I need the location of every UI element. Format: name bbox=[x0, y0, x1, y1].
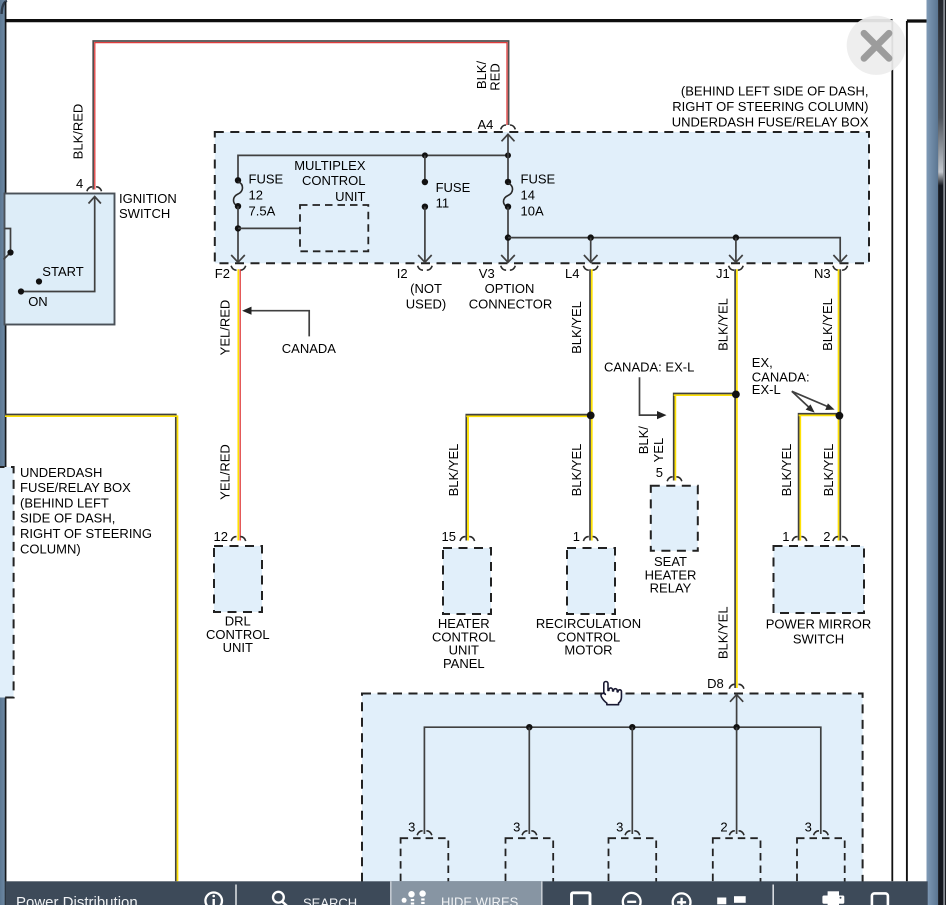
toolbar hide-wires section bbox=[391, 881, 542, 905]
wire A4 down arrow into box bbox=[502, 134, 515, 141]
svg-text:COLUMN): COLUMN) bbox=[20, 541, 81, 556]
svg-text:I2: I2 bbox=[397, 266, 408, 281]
heater control unit panel box (dashed) bbox=[443, 548, 491, 614]
ignition switch feed wire bracket bbox=[5, 229, 11, 253]
svg-text:BLK/YEL: BLK/YEL bbox=[569, 444, 584, 497]
connector V3 symbol bbox=[501, 266, 516, 270]
multiplex control unit box (dashed) bbox=[300, 205, 368, 251]
svg-text:4: 4 bbox=[76, 176, 83, 191]
wire BLK/YEL branch to seat heater relay bbox=[674, 394, 735, 481]
connector pin 1 symbol (recirculation) bbox=[583, 537, 598, 541]
svg-text:YEL: YEL bbox=[651, 438, 666, 463]
ignition switch internal wire with up arrow to pin 4 bbox=[21, 197, 95, 292]
wire D8 up arrow inside bottom box bbox=[730, 695, 743, 702]
wire internal bus to N3 column bbox=[508, 238, 840, 262]
component box col 4 (dashed) bbox=[713, 838, 761, 905]
toolbar zoom-in icon bbox=[673, 893, 691, 905]
CANADA EX-L pointer arrow bbox=[640, 377, 658, 415]
connector F2 symbol bbox=[231, 266, 246, 270]
underdash fuse/relay box (top, dashed) bbox=[215, 132, 869, 263]
svg-text:SEARCH: SEARCH bbox=[303, 896, 357, 905]
connector pin 2 symbol (power mirror) bbox=[833, 537, 848, 541]
component box col 5 (dashed) bbox=[797, 838, 845, 905]
connector N3 symbol bbox=[833, 266, 848, 270]
junction node fuse 12 tap bbox=[235, 225, 241, 231]
wire YEL/RED F2 to DRL control unit bbox=[237, 269, 239, 540]
left underdash fuse/relay box (dashed, clipped) bbox=[0, 467, 14, 698]
svg-text:UNDERDASH FUSE/RELAY BOX: UNDERDASH FUSE/RELAY BOX bbox=[672, 115, 869, 130]
svg-text:YEL/RED: YEL/RED bbox=[218, 300, 233, 356]
toolbar fit icon bbox=[572, 893, 591, 905]
svg-text:(BEHIND LEFT: (BEHIND LEFT bbox=[20, 495, 109, 510]
connector pin 5 symbol bbox=[667, 477, 682, 481]
svg-text:J1: J1 bbox=[716, 266, 730, 281]
wire BLK/YEL branch to heater control panel bbox=[466, 415, 590, 541]
connector D8 symbol bbox=[729, 684, 744, 688]
recirculation control motor box (dashed) bbox=[567, 548, 615, 614]
svg-text:SWITCH: SWITCH bbox=[793, 632, 844, 647]
svg-text:BLK/YEL: BLK/YEL bbox=[716, 606, 731, 659]
svg-text:CANADA: CANADA bbox=[282, 341, 337, 356]
svg-text:Power Distribution: Power Distribution bbox=[16, 894, 138, 905]
toolbar mobile icon bbox=[872, 893, 888, 905]
wire BLK/YEL left underdash box feed bbox=[5, 415, 176, 882]
svg-text:SWITCH: SWITCH bbox=[119, 206, 170, 221]
wire fuse 12 down to F2 with arrow bbox=[237, 206, 239, 261]
svg-text:BLK/YEL: BLK/YEL bbox=[821, 444, 836, 497]
page top border bbox=[5, 19, 893, 22]
svg-text:FUSE: FUSE bbox=[436, 180, 471, 195]
wire fuse 11 down to I2 with arrow bbox=[424, 207, 426, 262]
component box col 2 (dashed) bbox=[506, 838, 554, 905]
connector pin symbol col 1 bbox=[417, 831, 432, 835]
junction node bus at J1 bbox=[733, 234, 739, 240]
svg-text:1: 1 bbox=[573, 529, 580, 544]
page corner curve bbox=[2, 1, 7, 14]
svg-text:12: 12 bbox=[249, 188, 263, 203]
svg-text:USED): USED) bbox=[406, 297, 446, 312]
junction node on bus at A4 column bbox=[505, 152, 511, 158]
connector pin symbol col 2 bbox=[522, 831, 537, 835]
wire down col 4 bbox=[736, 727, 738, 834]
ignition switch feed contact node bbox=[7, 249, 13, 255]
svg-text:HIDE WIRES: HIDE WIRES bbox=[441, 895, 519, 905]
svg-text:CONNECTOR: CONNECTOR bbox=[469, 297, 553, 312]
DRL control unit box (dashed) bbox=[214, 546, 262, 612]
ignition switch ON contact node bbox=[18, 288, 24, 294]
junction node L4 branch bbox=[587, 412, 595, 420]
mouse cursor bbox=[601, 682, 621, 705]
svg-text:12: 12 bbox=[214, 529, 228, 544]
fuse 12 (7.5A) element bbox=[235, 177, 241, 183]
svg-text:ON: ON bbox=[28, 294, 48, 309]
toolbar print icon bbox=[822, 891, 844, 905]
connector pin symbol col 4 bbox=[729, 831, 744, 835]
connector pin symbol col 3 bbox=[625, 831, 640, 835]
connector pin 1 symbol (power mirror) bbox=[792, 537, 807, 541]
svg-text:V3: V3 bbox=[479, 266, 495, 281]
connector A4 symbol bbox=[501, 125, 516, 129]
svg-text:UNIT: UNIT bbox=[335, 189, 365, 204]
svg-text:EX-L: EX-L bbox=[752, 382, 781, 397]
junction node bus col 4 (D8) bbox=[733, 724, 739, 730]
wire down col 2 bbox=[528, 727, 530, 834]
wire BLK/YEL branch to power mirror pin 1 bbox=[799, 414, 839, 541]
toolbar zoom-out icon bbox=[623, 893, 641, 905]
toolbar bar bbox=[5, 881, 927, 905]
svg-text:A4: A4 bbox=[478, 117, 494, 132]
svg-text:RELAY: RELAY bbox=[650, 580, 692, 595]
svg-text:11: 11 bbox=[436, 196, 450, 211]
wire fuse 14 down to V3 with arrow bbox=[507, 207, 509, 262]
toolbar info icon bbox=[205, 893, 222, 905]
junction node bus at L4 bbox=[588, 234, 594, 240]
CANADA pointer arrow bbox=[250, 311, 309, 337]
svg-text:1: 1 bbox=[782, 529, 789, 544]
junction node J1 seat-heater branch bbox=[732, 391, 740, 399]
svg-text:2: 2 bbox=[720, 820, 727, 835]
fuse 14 (10A) element bbox=[505, 179, 511, 185]
svg-text:RED: RED bbox=[488, 63, 503, 90]
fuse 11 (empty slot) bbox=[424, 155, 426, 182]
connector pin 4 symbol bbox=[87, 187, 102, 191]
wire internal bus fuse12 to A4 column bbox=[238, 155, 508, 180]
svg-text:MOTOR: MOTOR bbox=[564, 643, 612, 658]
svg-text:BLK/YEL: BLK/YEL bbox=[569, 301, 584, 354]
page right border bbox=[891, 21, 893, 881]
wire down col 3 bbox=[631, 727, 633, 834]
svg-text:15: 15 bbox=[442, 529, 456, 544]
page left border bbox=[5, 2, 7, 905]
close button bbox=[847, 16, 906, 75]
svg-text:3: 3 bbox=[805, 820, 812, 835]
connector pin 12 symbol bbox=[231, 537, 246, 541]
connector J1 symbol bbox=[729, 266, 744, 270]
wire BLK/YEL L4 down to junction and recirculation motor bbox=[589, 269, 591, 540]
svg-text:START: START bbox=[42, 264, 83, 279]
svg-text:BLK/YEL: BLK/YEL bbox=[779, 444, 794, 497]
svg-text:BLK/YEL: BLK/YEL bbox=[446, 444, 461, 497]
seat heater relay box (dashed) bbox=[651, 486, 698, 551]
connector L4 symbol bbox=[583, 266, 598, 270]
bottom connector box (dashed) bbox=[362, 694, 863, 905]
junction node on bus at I2 column bbox=[422, 152, 428, 158]
svg-text:FUSE/RELAY BOX: FUSE/RELAY BOX bbox=[20, 480, 131, 495]
toolbar divider 1 bbox=[235, 885, 237, 905]
svg-text:CANADA: EX-L: CANADA: EX-L bbox=[604, 359, 694, 374]
svg-text:5: 5 bbox=[656, 465, 663, 480]
svg-text:OPTION: OPTION bbox=[485, 281, 535, 296]
wire tap to multiplex control unit bbox=[238, 227, 300, 229]
svg-text:7.5A: 7.5A bbox=[249, 204, 276, 219]
svg-text:BLK/YEL: BLK/YEL bbox=[820, 298, 835, 351]
right book-edge strip dark bbox=[938, 0, 946, 905]
svg-text:CONTROL: CONTROL bbox=[302, 173, 366, 188]
svg-text:POWER MIRROR: POWER MIRROR bbox=[766, 617, 871, 632]
svg-text:MULTIPLEX: MULTIPLEX bbox=[294, 158, 366, 173]
junction node N3 branch bbox=[836, 412, 844, 420]
svg-text:UNDERDASH: UNDERDASH bbox=[20, 465, 102, 480]
svg-text:UNIT: UNIT bbox=[223, 640, 253, 655]
toolbar hide-wires icon bbox=[402, 890, 426, 904]
wire bus down to L4 with arrow bbox=[590, 238, 592, 262]
svg-text:14: 14 bbox=[521, 188, 535, 203]
wire bottom distribution bus bbox=[424, 727, 820, 834]
svg-text:(NOT: (NOT bbox=[410, 281, 442, 296]
svg-text:EX,: EX, bbox=[752, 355, 773, 370]
wire bus down to J1 with arrow bbox=[735, 238, 737, 262]
svg-text:RIGHT OF STEERING COLUMN): RIGHT OF STEERING COLUMN) bbox=[672, 99, 868, 114]
wire BLK/YEL J1 down to D8 bbox=[734, 269, 736, 688]
toolbar compare icon bbox=[717, 896, 746, 904]
svg-text:PANEL: PANEL bbox=[443, 656, 485, 671]
svg-text:3: 3 bbox=[408, 820, 415, 835]
EX CANADA pointer arrows bbox=[792, 391, 809, 407]
wire BLK/YEL N3 down to power mirror pin 2 bbox=[838, 269, 840, 540]
svg-text:3: 3 bbox=[616, 820, 623, 835]
svg-text:IGNITION: IGNITION bbox=[119, 191, 177, 206]
svg-text:FUSE: FUSE bbox=[249, 172, 284, 187]
svg-text:BLK/RED: BLK/RED bbox=[71, 104, 86, 160]
svg-text:RIGHT OF STEERING: RIGHT OF STEERING bbox=[20, 526, 152, 541]
svg-text:F2: F2 bbox=[215, 266, 230, 281]
ignition switch box bbox=[5, 194, 115, 325]
connector I2 symbol bbox=[418, 266, 433, 270]
connector pin symbol col 5 bbox=[814, 831, 829, 835]
junction node bus col 2 bbox=[526, 724, 532, 730]
wire BLK/RED from ignition switch pin 4 to connector A4 bbox=[93, 41, 508, 190]
back page top border bbox=[907, 19, 927, 22]
svg-text:D8: D8 bbox=[707, 676, 724, 691]
svg-text:BLK/YEL: BLK/YEL bbox=[716, 298, 731, 351]
right book-edge strip blue bbox=[927, 0, 939, 905]
svg-text:L4: L4 bbox=[565, 266, 579, 281]
svg-text:(BEHIND LEFT SIDE OF DASH,: (BEHIND LEFT SIDE OF DASH, bbox=[681, 84, 869, 99]
junction node fuse 14 bus tap bbox=[505, 234, 511, 240]
svg-text:3: 3 bbox=[513, 820, 520, 835]
component box col 3 (dashed) bbox=[609, 838, 657, 905]
connector pin 15 symbol bbox=[460, 537, 475, 541]
back page right border bbox=[906, 21, 908, 881]
svg-text:N3: N3 bbox=[814, 266, 831, 281]
component box col 1 (dashed) bbox=[401, 838, 449, 905]
junction node bus col 3 bbox=[629, 724, 635, 730]
svg-text:SIDE OF DASH,: SIDE OF DASH, bbox=[20, 511, 115, 526]
left page-edge strip bbox=[0, 0, 5, 905]
power mirror switch box (dashed) bbox=[774, 546, 865, 613]
toolbar search icon bbox=[273, 892, 288, 905]
svg-text:2: 2 bbox=[823, 529, 830, 544]
svg-text:FUSE: FUSE bbox=[521, 172, 556, 187]
toolbar divider 2 bbox=[772, 885, 774, 905]
svg-text:YEL/RED: YEL/RED bbox=[218, 444, 233, 500]
ignition switch START contact node bbox=[36, 278, 42, 284]
svg-text:10A: 10A bbox=[521, 204, 544, 219]
svg-text:BLK/: BLK/ bbox=[636, 426, 651, 455]
